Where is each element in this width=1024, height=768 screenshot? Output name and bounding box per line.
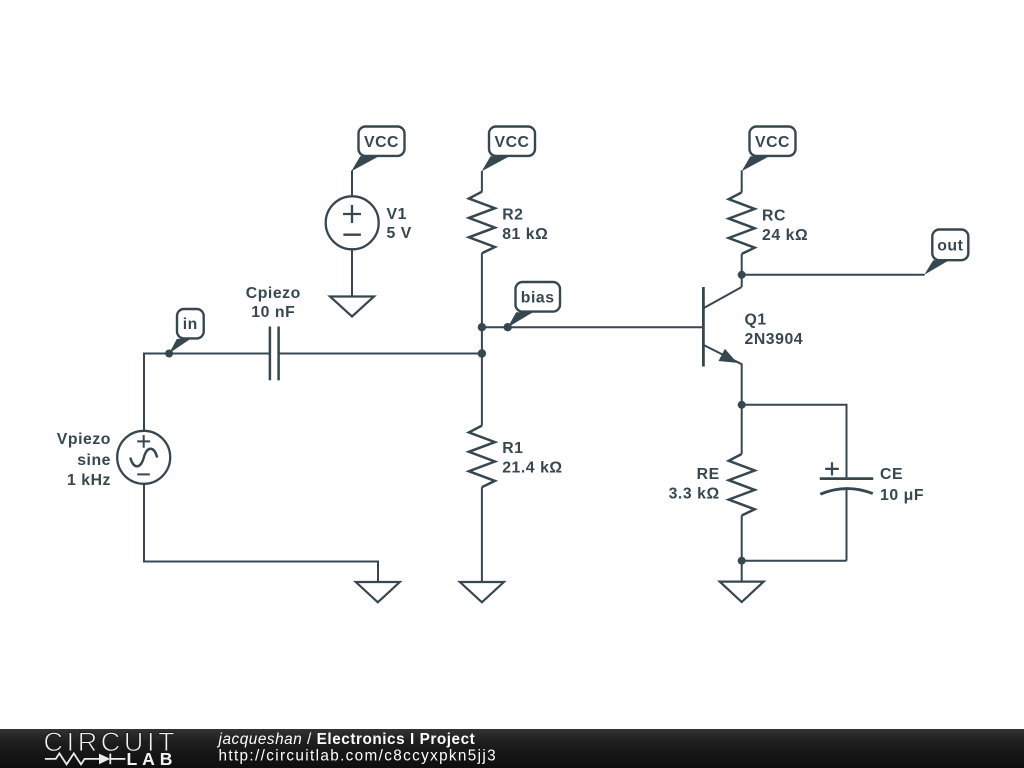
svg-text:sine: sine: [77, 452, 111, 469]
svg-text:VCC: VCC: [494, 134, 529, 151]
svg-text:in: in: [183, 316, 198, 333]
svg-text:RE: RE: [697, 466, 720, 483]
svg-text:Vpiezo: Vpiezo: [57, 431, 111, 448]
svg-text:10 μF: 10 μF: [880, 487, 924, 504]
svg-text:2N3904: 2N3904: [745, 331, 804, 348]
svg-text:Cpiezo: Cpiezo: [246, 285, 301, 302]
svg-text:jacqueshan / Electronics I Pro: jacqueshan / Electronics I Project: [217, 731, 476, 748]
svg-text:LAB: LAB: [127, 749, 178, 768]
svg-text:http://circuitlab.com/c8ccyxpk: http://circuitlab.com/c8ccyxpkn5jj3: [219, 748, 498, 765]
svg-text:1 kHz: 1 kHz: [67, 472, 111, 489]
svg-text:3.3 kΩ: 3.3 kΩ: [669, 486, 720, 503]
svg-text:Q1: Q1: [745, 312, 767, 329]
svg-text:bias: bias: [521, 289, 555, 306]
svg-text:VCC: VCC: [364, 134, 399, 151]
svg-text:CE: CE: [880, 466, 903, 483]
svg-text:5 V: 5 V: [387, 225, 412, 242]
svg-text:21.4 kΩ: 21.4 kΩ: [502, 459, 562, 476]
svg-text:81 kΩ: 81 kΩ: [502, 226, 548, 243]
svg-text:R2: R2: [502, 207, 523, 224]
svg-text:R1: R1: [502, 440, 523, 457]
svg-text:VCC: VCC: [755, 134, 790, 151]
svg-text:24 kΩ: 24 kΩ: [762, 227, 808, 244]
svg-text:V1: V1: [387, 206, 407, 223]
svg-text:10 nF: 10 nF: [251, 304, 295, 321]
svg-text:out: out: [937, 237, 963, 254]
svg-text:RC: RC: [762, 207, 786, 224]
